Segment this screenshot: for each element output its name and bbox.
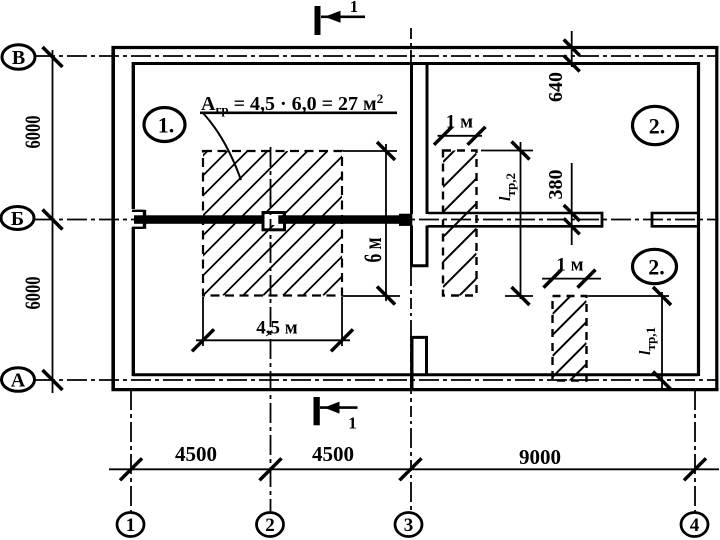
- svg-text:1 м: 1 м: [446, 112, 473, 133]
- svg-text:9000: 9000: [519, 445, 561, 469]
- svg-text:2: 2: [265, 515, 275, 536]
- svg-text:6000: 6000: [20, 277, 45, 310]
- svg-text:3: 3: [404, 515, 414, 536]
- svg-text:1 м: 1 м: [556, 255, 583, 276]
- svg-text:1: 1: [350, 0, 359, 16]
- svg-text:2.: 2.: [648, 255, 665, 280]
- svg-text:6000: 6000: [20, 116, 45, 149]
- svg-text:1: 1: [126, 515, 136, 536]
- svg-text:1: 1: [348, 414, 357, 433]
- svg-text:В: В: [12, 47, 25, 69]
- svg-text:6 м: 6 м: [360, 238, 387, 263]
- svg-text:640: 640: [545, 72, 567, 102]
- svg-text:2.: 2.: [649, 114, 666, 139]
- svg-text:4: 4: [690, 515, 700, 536]
- svg-text:4500: 4500: [175, 442, 217, 466]
- svg-text:Б: Б: [11, 208, 24, 230]
- svg-text:1.: 1.: [158, 113, 175, 138]
- svg-text:А: А: [11, 370, 26, 392]
- svg-text:4500: 4500: [312, 442, 354, 466]
- svg-text:4,5 м: 4,5 м: [256, 318, 298, 339]
- svg-text:380: 380: [545, 170, 567, 200]
